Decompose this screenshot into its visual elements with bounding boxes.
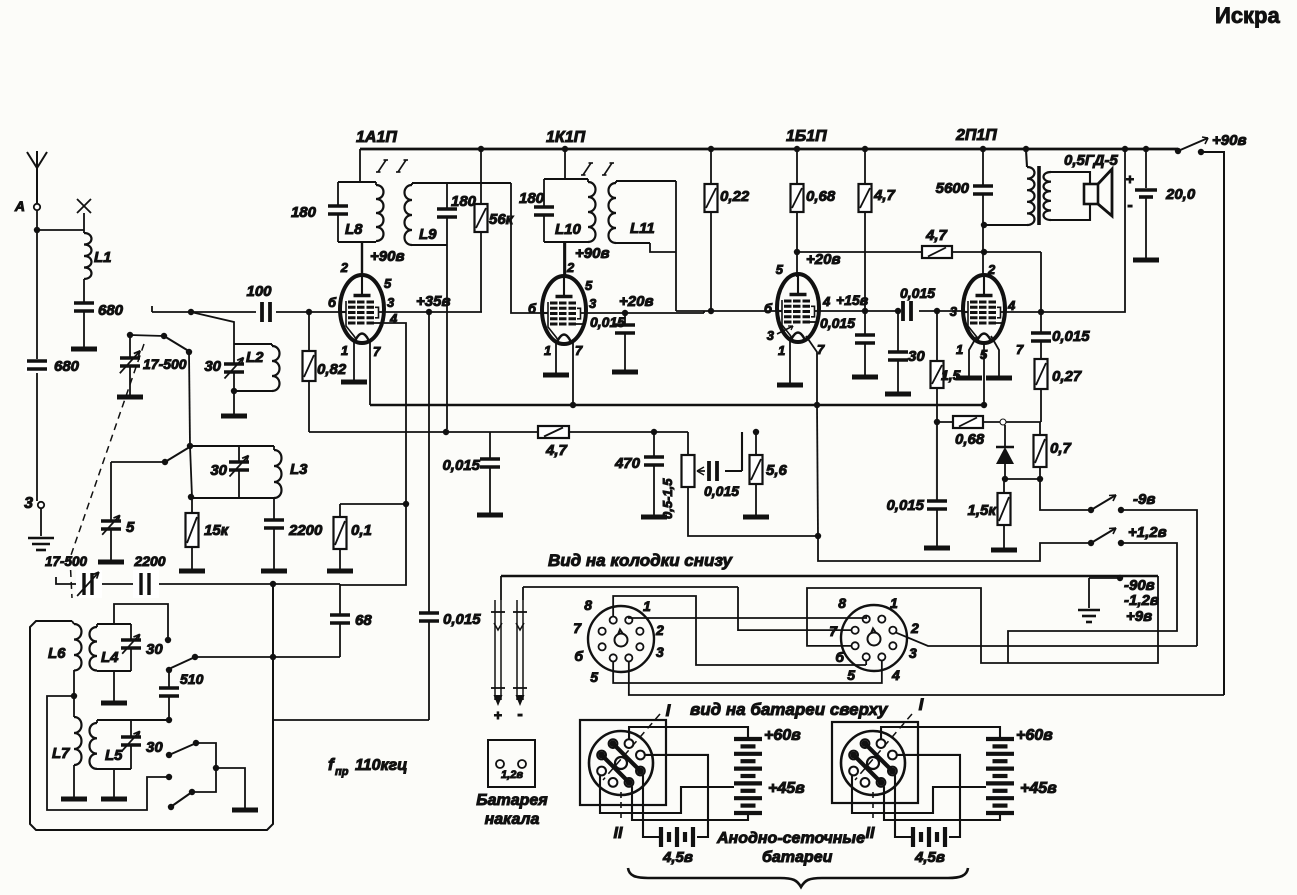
svg-text:+20в: +20в — [619, 293, 654, 310]
svg-text:б: б — [835, 649, 844, 665]
svg-text:пр: пр — [335, 766, 349, 778]
svg-text:2: 2 — [340, 260, 349, 275]
svg-text:680: 680 — [98, 302, 124, 319]
svg-text:-1,2в: -1,2в — [1124, 592, 1159, 609]
svg-text:L1: L1 — [94, 249, 112, 266]
svg-text:+20в: +20в — [806, 251, 841, 268]
svg-text:1: 1 — [956, 342, 963, 357]
svg-text:5: 5 — [847, 667, 855, 683]
svg-text:3: 3 — [909, 645, 917, 661]
svg-text:+15в: +15в — [836, 292, 869, 308]
svg-text:0,015: 0,015 — [820, 315, 855, 331]
svg-text:+35в: +35в — [416, 293, 451, 310]
svg-text:3: 3 — [767, 328, 775, 343]
svg-text:110кгц: 110кгц — [355, 757, 408, 774]
svg-text:1: 1 — [643, 598, 651, 614]
svg-text:680: 680 — [54, 358, 80, 375]
svg-text:4,7: 4,7 — [545, 442, 568, 459]
svg-text:0,1: 0,1 — [351, 522, 372, 539]
svg-text:17-500: 17-500 — [143, 356, 187, 372]
svg-text:7: 7 — [817, 342, 825, 357]
svg-text:0,015: 0,015 — [1052, 328, 1090, 345]
svg-text:накала: накала — [485, 811, 540, 828]
svg-text:56к: 56к — [489, 211, 515, 228]
svg-text:-9в: -9в — [1133, 491, 1155, 508]
svg-text:L6: L6 — [48, 645, 66, 662]
svg-text:20,0: 20,0 — [1165, 186, 1196, 203]
svg-text:0,82: 0,82 — [317, 361, 347, 378]
svg-text:+90в: +90в — [1212, 132, 1247, 149]
svg-text:5: 5 — [384, 276, 392, 291]
svg-text:0,015: 0,015 — [590, 314, 625, 330]
svg-text:+60в: +60в — [764, 727, 801, 744]
svg-text:5: 5 — [126, 519, 135, 536]
svg-text:1,5: 1,5 — [941, 367, 961, 383]
svg-text:-: - — [517, 706, 522, 723]
svg-text:+45в: +45в — [1020, 780, 1057, 797]
svg-text:2: 2 — [566, 260, 575, 275]
svg-text:2П1П: 2П1П — [955, 127, 997, 144]
svg-text:0,7: 0,7 — [1050, 440, 1072, 457]
svg-text:0,015: 0,015 — [442, 457, 480, 474]
svg-text:470: 470 — [614, 455, 641, 472]
svg-text:30: 30 — [908, 348, 925, 365]
svg-text:+90в: +90в — [575, 245, 610, 262]
svg-text:7: 7 — [1016, 342, 1024, 357]
svg-text:17-500: 17-500 — [45, 554, 88, 569]
svg-text:L5: L5 — [105, 747, 123, 764]
svg-text:б: б — [764, 301, 773, 316]
svg-text:L4: L4 — [101, 649, 119, 666]
svg-text:Батарея: Батарея — [476, 792, 548, 809]
svg-text:Искра: Искра — [1215, 3, 1280, 28]
svg-text:+90в: +90в — [370, 248, 405, 265]
svg-text:0,015: 0,015 — [886, 497, 924, 514]
svg-text:4: 4 — [891, 667, 900, 683]
svg-text:1К1П: 1К1П — [546, 129, 586, 146]
svg-text:L9: L9 — [419, 226, 437, 243]
svg-text:0,5-1,5: 0,5-1,5 — [660, 478, 675, 519]
svg-text:100: 100 — [246, 283, 272, 300]
svg-text:4,5в: 4,5в — [914, 849, 945, 866]
svg-text:б: б — [574, 648, 583, 664]
svg-text:1: 1 — [778, 343, 785, 358]
svg-text:+: + — [494, 707, 502, 723]
svg-text:1: 1 — [544, 343, 551, 358]
svg-text:0,015: 0,015 — [900, 285, 935, 301]
svg-text:+60в: +60в — [1016, 727, 1053, 744]
svg-text:2: 2 — [987, 262, 996, 277]
svg-text:30: 30 — [204, 358, 221, 375]
svg-text:0,5ГД-5: 0,5ГД-5 — [1064, 152, 1119, 169]
svg-text:батареи: батареи — [762, 849, 833, 866]
svg-text:1,5к: 1,5к — [968, 502, 998, 519]
svg-text:30: 30 — [146, 641, 163, 658]
svg-text:А: А — [14, 198, 25, 214]
svg-text:5600: 5600 — [936, 180, 970, 197]
svg-text:180: 180 — [291, 204, 317, 221]
svg-text:1Б1П: 1Б1П — [786, 128, 827, 145]
svg-text:L7: L7 — [52, 745, 70, 762]
svg-text:Анодно-сеточные: Анодно-сеточные — [716, 830, 865, 847]
svg-text:30: 30 — [210, 462, 227, 479]
svg-text:1: 1 — [890, 595, 898, 611]
svg-text:510: 510 — [180, 671, 204, 687]
svg-text:б: б — [528, 301, 537, 316]
svg-text:L8: L8 — [345, 221, 363, 238]
svg-text:3: 3 — [656, 644, 664, 660]
svg-text:+45в: +45в — [768, 780, 805, 797]
svg-text:180: 180 — [519, 190, 545, 207]
svg-text:вид на батареи сверху: вид на батареи сверху — [690, 700, 889, 719]
svg-text:1: 1 — [341, 343, 348, 358]
svg-text:1,2в: 1,2в — [501, 769, 523, 781]
svg-text:7: 7 — [573, 620, 582, 636]
svg-text:4,7: 4,7 — [873, 187, 896, 204]
svg-text:3: 3 — [950, 304, 958, 319]
svg-text:-: - — [1127, 197, 1132, 214]
svg-text:7: 7 — [575, 343, 583, 358]
svg-text:4,7: 4,7 — [925, 227, 948, 244]
svg-text:3: 3 — [24, 495, 33, 512]
svg-text:68: 68 — [355, 612, 372, 629]
svg-text:0,27: 0,27 — [1052, 368, 1082, 385]
svg-text:5: 5 — [590, 669, 598, 685]
svg-text:5: 5 — [585, 278, 593, 293]
svg-text:Вид на колодки снизу: Вид на колодки снизу — [548, 551, 733, 570]
svg-text:30: 30 — [146, 739, 163, 756]
svg-text:0,015: 0,015 — [443, 611, 481, 628]
svg-text:2: 2 — [655, 622, 664, 638]
svg-text:II: II — [614, 825, 623, 842]
svg-text:L2: L2 — [246, 349, 264, 366]
svg-text:15к: 15к — [204, 522, 230, 539]
svg-text:180: 180 — [451, 193, 477, 210]
svg-text:8: 8 — [838, 595, 846, 611]
svg-text:L3: L3 — [290, 461, 308, 478]
svg-text:0,015: 0,015 — [704, 483, 739, 499]
svg-text:7: 7 — [373, 344, 381, 359]
svg-text:II: II — [866, 825, 875, 842]
svg-text:+9в: +9в — [1126, 608, 1152, 625]
svg-text:5: 5 — [776, 262, 784, 277]
svg-text:0,22: 0,22 — [720, 188, 750, 205]
svg-text:1А1П: 1А1П — [356, 129, 397, 146]
svg-text:+1,2в: +1,2в — [1128, 524, 1167, 541]
svg-text:4: 4 — [822, 294, 831, 309]
svg-text:б: б — [328, 295, 337, 310]
svg-text:2200: 2200 — [288, 522, 323, 539]
svg-text:8: 8 — [584, 597, 592, 613]
svg-text:2200: 2200 — [133, 553, 165, 569]
svg-text:0,68: 0,68 — [955, 431, 985, 448]
svg-text:3: 3 — [387, 295, 395, 310]
svg-text:0,68: 0,68 — [806, 188, 836, 205]
svg-text:4: 4 — [1007, 298, 1016, 313]
svg-text:2: 2 — [910, 620, 919, 636]
svg-text:3: 3 — [589, 296, 597, 311]
svg-text:5,6: 5,6 — [766, 462, 788, 479]
svg-text:L11: L11 — [630, 220, 655, 237]
svg-text:4,5в: 4,5в — [662, 849, 693, 866]
svg-text:5: 5 — [980, 347, 988, 362]
svg-text:+: + — [1126, 171, 1134, 187]
svg-text:L10: L10 — [555, 221, 582, 238]
